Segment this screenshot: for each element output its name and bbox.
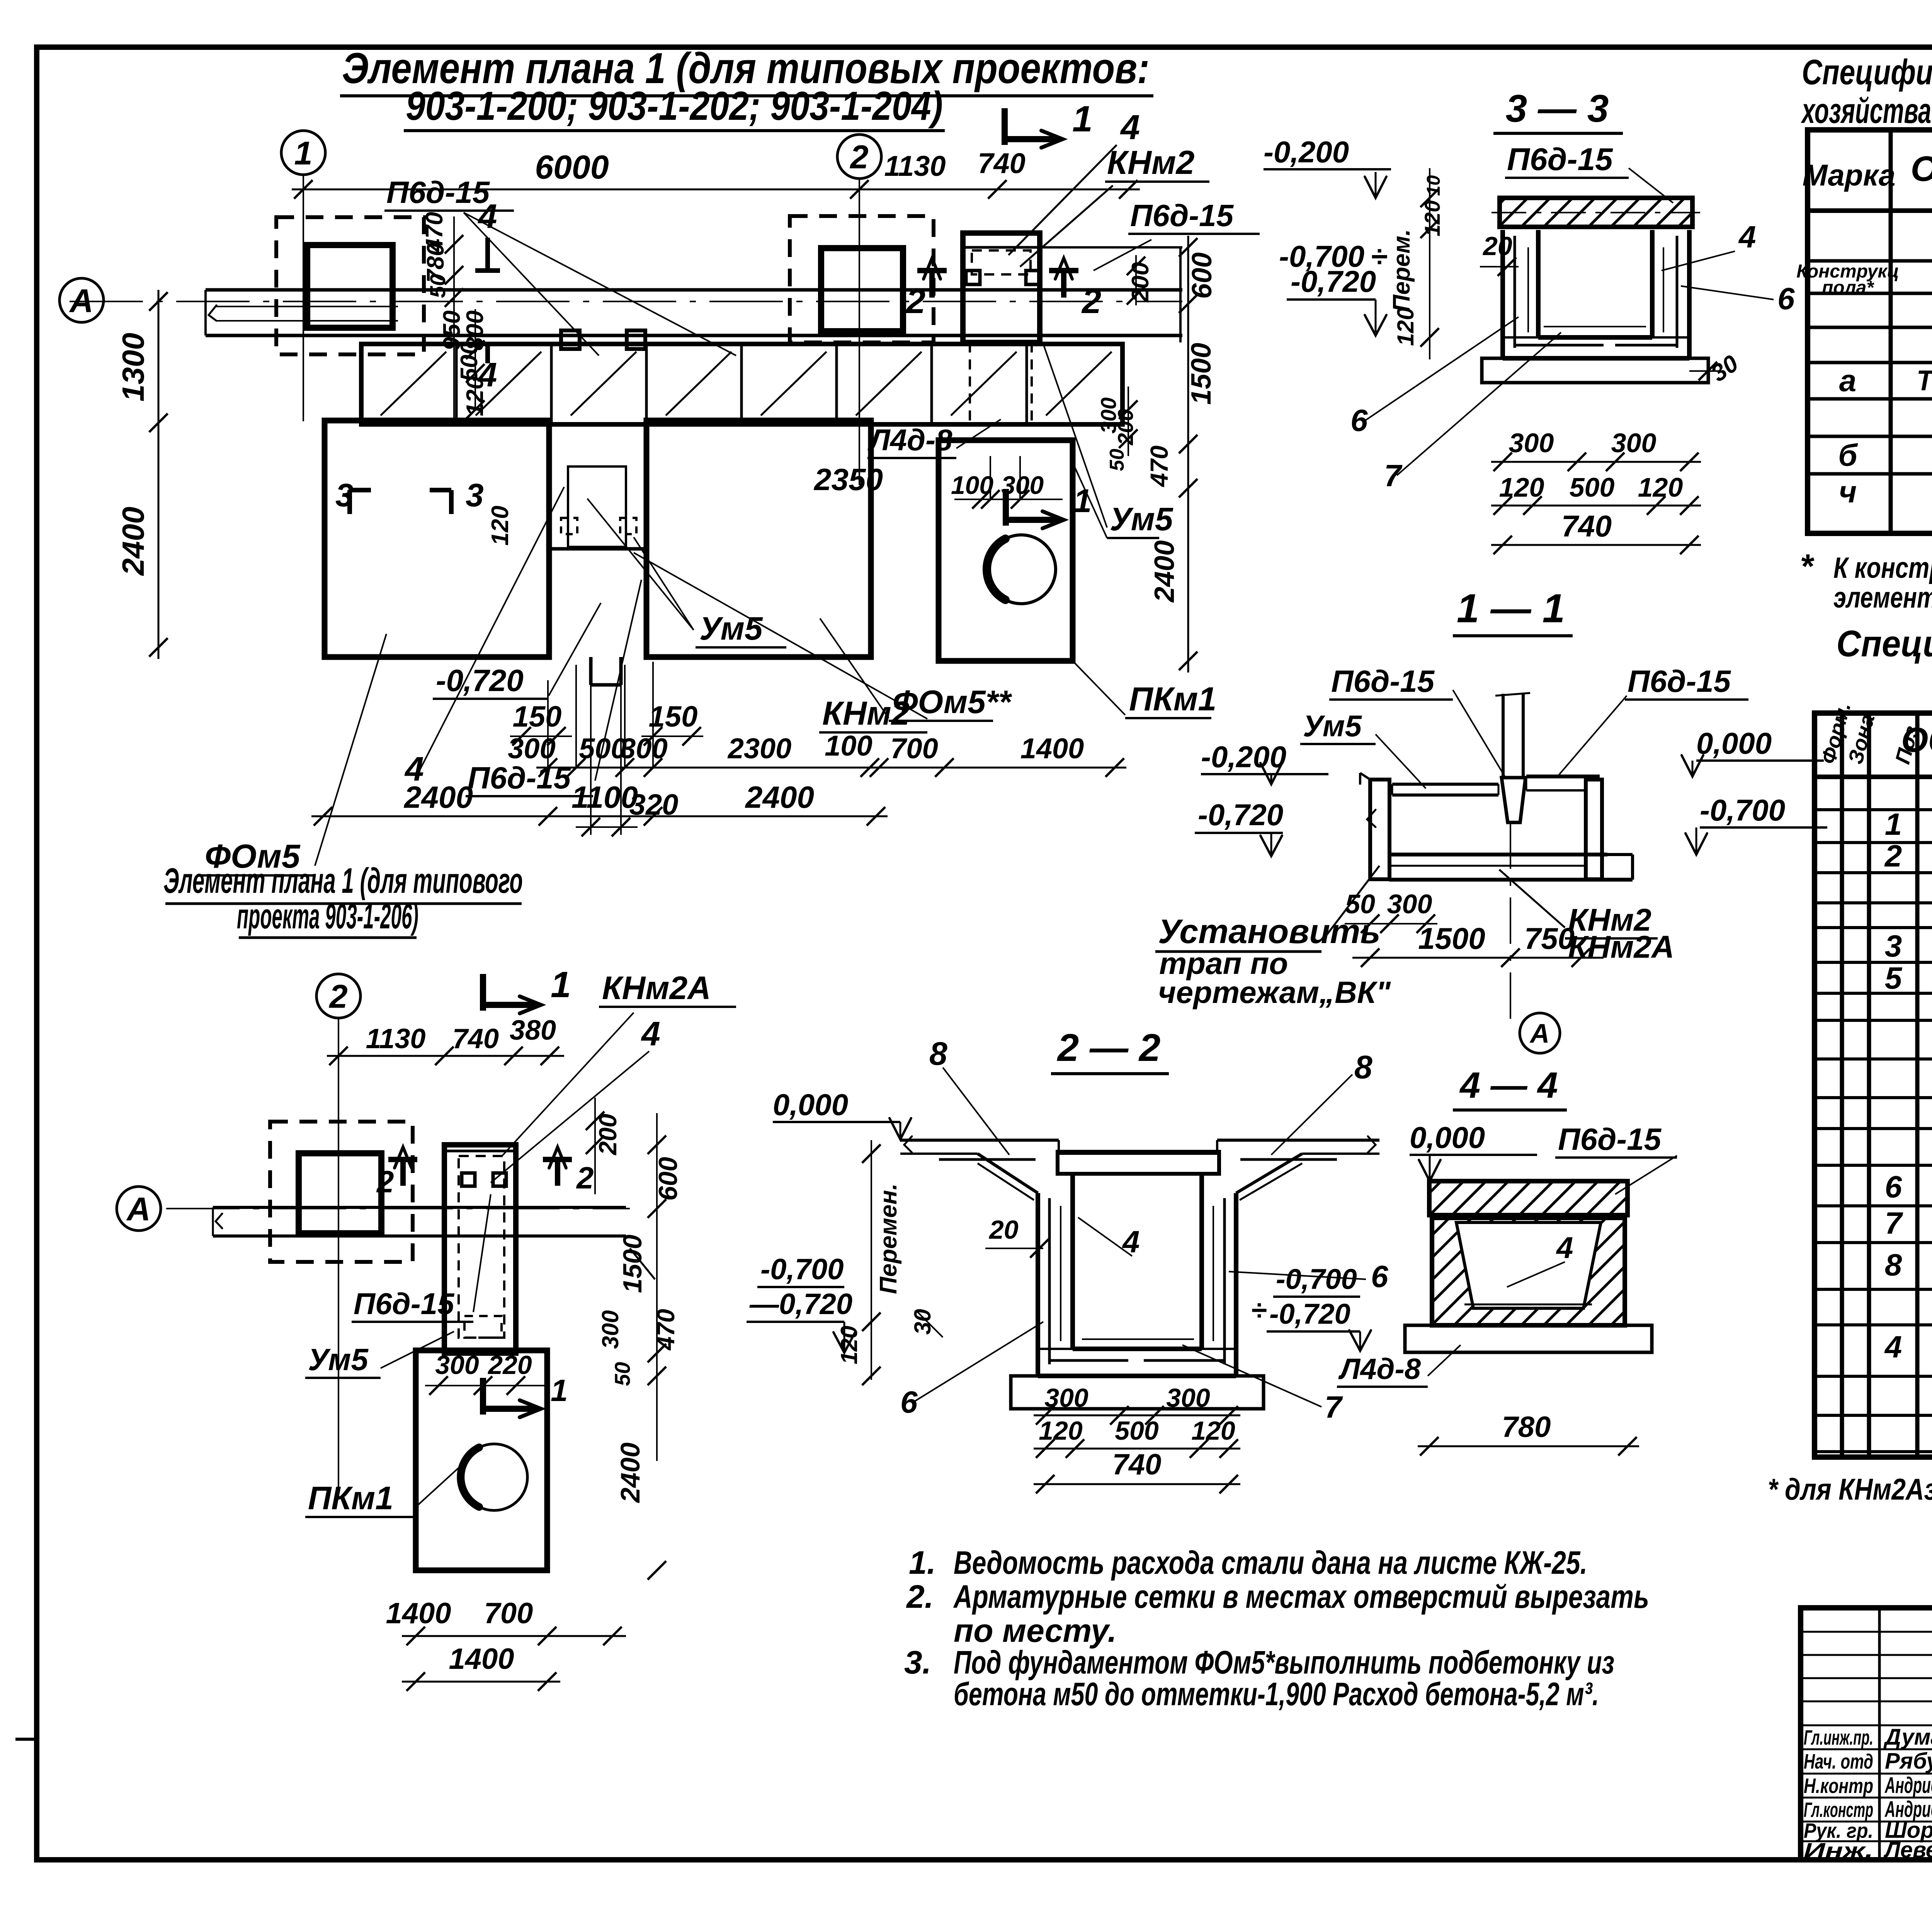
svg-text:-0,200: -0,200: [1264, 135, 1349, 169]
svg-text:Л4д-8: Л4д-8: [867, 423, 952, 457]
svg-text:Думан: Думан: [1883, 1725, 1932, 1750]
svg-text:20: 20: [988, 1215, 1019, 1245]
svg-text:500: 500: [1115, 1416, 1159, 1445]
svg-text:Под фундаментом ФОм5*выполнить: Под фундаментом ФОм5*выполнить подбетонк…: [954, 1644, 1614, 1680]
svg-text:Ум5: Ум5: [308, 1342, 369, 1377]
svg-text:3.: 3.: [904, 1644, 931, 1680]
svg-text:4: 4: [1738, 220, 1756, 254]
svg-text:бетона м50 до отметки-1,900 Р: бетона м50 до отметки-1,900 Расход бетон…: [954, 1676, 1599, 1712]
svg-text:300: 300: [1001, 471, 1044, 499]
svg-text:1: 1: [1073, 483, 1092, 519]
svg-text:700: 700: [890, 732, 938, 764]
svg-text:-0,200: -0,200: [1201, 740, 1286, 774]
svg-text:3 — 3: 3 — 3: [1506, 87, 1609, 130]
svg-text:8: 8: [929, 1035, 947, 1072]
svg-text:300: 300: [435, 1350, 479, 1380]
svg-text:Ум5: Ум5: [1110, 501, 1173, 537]
svg-text:740: 740: [1561, 509, 1612, 543]
svg-text:2: 2: [1081, 282, 1101, 321]
svg-text:по месту.: по месту.: [954, 1612, 1117, 1649]
svg-text:100: 100: [825, 730, 872, 762]
svg-text:50: 50: [1106, 449, 1128, 471]
svg-text:1300: 1300: [116, 333, 150, 402]
svg-text:120: 120: [1499, 472, 1544, 502]
svg-text:2300: 2300: [727, 732, 792, 764]
svg-text:А: А: [1529, 1018, 1550, 1049]
svg-text:КНм2А: КНм2А: [602, 970, 711, 1006]
svg-text:ч: ч: [1839, 475, 1857, 509]
svg-text:4: 4: [1556, 1231, 1573, 1265]
svg-text:2: 2: [905, 282, 925, 321]
svg-text:хозяйства на листах КЖ-15 (КЖ-: хозяйства на листах КЖ-15 (КЖ-16),КЖ-17,…: [1801, 91, 1932, 131]
svg-text:120: 120: [1191, 1416, 1235, 1445]
svg-text:2: 2: [849, 139, 868, 176]
svg-text:200: 200: [594, 1114, 622, 1156]
svg-text:-0,720: -0,720: [1269, 1298, 1350, 1330]
svg-text:6: 6: [1777, 281, 1795, 316]
svg-text:2400: 2400: [403, 780, 473, 814]
svg-text:470: 470: [1145, 446, 1173, 488]
svg-text:380: 380: [510, 1015, 556, 1046]
svg-text:П6д-15: П6д-15: [354, 1287, 455, 1321]
svg-text:0,000: 0,000: [773, 1088, 848, 1122]
svg-text:* для КНм2Азначения даны в зна: * для КНм2Азначения даны в знаменателе: [1768, 1472, 1932, 1506]
svg-text:740: 740: [978, 147, 1025, 179]
svg-text:1400: 1400: [1020, 732, 1084, 764]
svg-text:300: 300: [1387, 889, 1432, 919]
svg-text:1130: 1130: [366, 1023, 426, 1054]
svg-text:ФОм5: ФОм5: [205, 838, 301, 875]
svg-text:120: 120: [1039, 1416, 1083, 1445]
svg-text:-0,720: -0,720: [436, 663, 524, 698]
svg-text:Л4д-8: Л4д-8: [1338, 1353, 1421, 1386]
svg-text:Обозначение: Обозначение: [1911, 149, 1932, 189]
svg-text:П6д-15: П6д-15: [468, 761, 571, 795]
svg-text:1: 1: [1072, 99, 1093, 140]
svg-text:740: 740: [452, 1023, 499, 1054]
svg-text:Нач. отд: Нач. отд: [1804, 1750, 1873, 1773]
svg-text:0,000: 0,000: [1696, 726, 1772, 760]
svg-text:проекта 903-1-206): проекта 903-1-206): [237, 897, 418, 936]
svg-text:Марка: Марка: [1803, 158, 1896, 192]
svg-text:Левейка: Левейка: [1883, 1837, 1932, 1863]
svg-text:Инж.: Инж.: [1804, 1839, 1873, 1862]
svg-text:200: 200: [1127, 262, 1154, 302]
svg-text:Гл.инж.пр.: Гл.инж.пр.: [1804, 1726, 1873, 1749]
svg-text:1400: 1400: [449, 1643, 514, 1675]
svg-text:б: б: [1838, 438, 1858, 472]
svg-text:300: 300: [1166, 1383, 1210, 1413]
svg-text:-0,720: -0,720: [1198, 798, 1283, 832]
svg-text:—0,720: —0,720: [749, 1288, 852, 1321]
svg-text:пола*: пола*: [1822, 278, 1874, 298]
svg-text:300: 300: [597, 1310, 623, 1349]
svg-text:780: 780: [1502, 1411, 1551, 1444]
svg-text:-0,700: -0,700: [760, 1253, 844, 1286]
svg-text:500: 500: [579, 732, 626, 764]
svg-text:Обозначение: Обозначение: [1901, 721, 1932, 759]
svg-text:3: 3: [466, 477, 484, 513]
svg-text:5: 5: [1885, 961, 1903, 995]
svg-text:-0,700: -0,700: [1276, 1263, 1357, 1295]
svg-text:2: 2: [376, 1165, 394, 1199]
svg-text:элементы примыкания пола к кан: элементы примыкания пола к каналам, закл…: [1833, 581, 1932, 614]
svg-text:П6д-15: П6д-15: [1507, 142, 1613, 177]
svg-text:20: 20: [1482, 232, 1512, 261]
svg-text:Перемен.: Перемен.: [875, 1183, 902, 1294]
svg-text:6: 6: [900, 1385, 918, 1419]
svg-text:чертежам„ВК": чертежам„ВК": [1158, 975, 1391, 1010]
svg-text:10: 10: [1423, 175, 1444, 196]
svg-text:П6д-15: П6д-15: [1558, 1122, 1662, 1156]
svg-text:1 — 1: 1 — 1: [1457, 586, 1565, 631]
svg-text:П6д-15: П6д-15: [386, 175, 490, 209]
svg-text:Спецификация элементов к схеме: Спецификация элементов к схеме расположе…: [1802, 53, 1932, 92]
svg-text:2: 2: [576, 1161, 594, 1195]
svg-text:150: 150: [649, 700, 698, 733]
svg-text:1: 1: [1885, 807, 1902, 841]
svg-text:6000: 6000: [535, 149, 609, 186]
svg-text:7: 7: [1384, 458, 1403, 493]
svg-text:4 — 4: 4 — 4: [1459, 1065, 1558, 1106]
svg-text:ПКм1: ПКм1: [308, 1480, 393, 1516]
svg-text:300: 300: [1509, 428, 1554, 458]
svg-text:8: 8: [1885, 1248, 1902, 1282]
svg-text:Спецификация монолитной желе: Спецификация монолитной железобетонной: [1837, 623, 1932, 664]
svg-text:220: 220: [487, 1350, 532, 1380]
svg-text:2400: 2400: [116, 507, 150, 576]
svg-text:ФОм5**: ФОм5**: [893, 684, 1012, 720]
svg-text:1: 1: [294, 135, 312, 172]
svg-text:50: 50: [425, 274, 450, 298]
svg-text:2 — 2: 2 — 2: [1057, 1026, 1161, 1069]
svg-text:1500: 1500: [1418, 921, 1485, 955]
svg-text:2400: 2400: [615, 1442, 645, 1503]
svg-text:Арматурные сетки в местах отве: Арматурные сетки в местах отверстий выре…: [953, 1578, 1649, 1615]
svg-text:0,000: 0,000: [1410, 1120, 1485, 1154]
svg-text:Ведомость расхода стали дана н: Ведомость расхода стали дана на листе КЖ…: [954, 1544, 1587, 1581]
svg-text:4: 4: [1120, 108, 1140, 147]
svg-text:а: а: [1839, 363, 1857, 398]
svg-text:300: 300: [1611, 428, 1656, 458]
svg-text:1100: 1100: [571, 780, 638, 814]
svg-text:50: 50: [610, 1362, 634, 1386]
svg-text:Н.контр: Н.контр: [1804, 1774, 1873, 1798]
svg-text:2.: 2.: [906, 1578, 934, 1615]
svg-text:120: 120: [1420, 200, 1444, 236]
svg-text:1400: 1400: [386, 1597, 451, 1630]
svg-text:740: 740: [1112, 1448, 1162, 1481]
svg-text:2400: 2400: [745, 780, 814, 814]
svg-text:120: 120: [836, 1326, 862, 1364]
svg-text:ТУ6-16-051-249-79: ТУ6-16-051-249-79: [1917, 364, 1932, 397]
svg-text:КНм2: КНм2: [1107, 144, 1194, 181]
svg-text:А: А: [126, 1191, 150, 1228]
svg-text:ПКм1: ПКм1: [1129, 681, 1216, 718]
svg-text:6: 6: [1885, 1170, 1902, 1204]
svg-text:2400: 2400: [1149, 540, 1180, 603]
svg-text:-0,720: -0,720: [1291, 264, 1376, 298]
svg-text:120: 120: [1638, 472, 1683, 502]
svg-text:1: 1: [551, 964, 571, 1005]
svg-text:7: 7: [1325, 1390, 1343, 1424]
svg-text:1500: 1500: [1186, 343, 1217, 405]
svg-text:Перем.: Перем.: [1388, 229, 1415, 312]
svg-text:4: 4: [478, 197, 497, 235]
svg-text:*: *: [1800, 547, 1815, 585]
svg-text:7: 7: [1885, 1206, 1903, 1240]
svg-text:Ум5: Ум5: [699, 610, 763, 647]
svg-text:-0,700: -0,700: [1700, 793, 1785, 827]
svg-text:600: 600: [653, 1157, 683, 1201]
svg-text:÷: ÷: [1251, 1294, 1267, 1326]
svg-text:903-1-200; 903-1-202; 903-1-20: 903-1-200; 903-1-202; 903-1-204): [406, 83, 943, 129]
svg-text:2350: 2350: [813, 462, 883, 497]
svg-text:700: 700: [484, 1597, 533, 1630]
svg-text:600: 600: [1187, 252, 1218, 299]
svg-text:120: 120: [1393, 307, 1418, 346]
svg-text:Рябуха: Рябуха: [1885, 1748, 1932, 1774]
svg-text:Андриевская: Андриевская: [1884, 1773, 1932, 1798]
svg-text:6: 6: [1371, 1259, 1388, 1294]
svg-text:К конструкции пола условно отн: К конструкции пола условно относится арм…: [1833, 552, 1932, 584]
svg-text:4: 4: [1122, 1224, 1140, 1259]
svg-text:1: 1: [551, 1373, 568, 1408]
svg-text:500: 500: [1570, 472, 1615, 502]
svg-text:П6д-15: П6д-15: [1331, 664, 1435, 698]
svg-text:КНм2А: КНм2А: [1568, 930, 1674, 965]
svg-text:Гл.констр: Гл.констр: [1804, 1798, 1873, 1822]
svg-text:470: 470: [652, 1309, 680, 1351]
svg-text:4: 4: [641, 1015, 660, 1053]
svg-text:150: 150: [513, 700, 562, 733]
svg-text:2: 2: [328, 979, 347, 1015]
svg-text:П6д-15: П6д-15: [1628, 664, 1731, 698]
svg-text:П6д-15: П6д-15: [1130, 198, 1234, 233]
svg-text:50: 50: [1345, 889, 1375, 919]
svg-text:750: 750: [1524, 921, 1575, 955]
svg-text:4: 4: [1884, 1330, 1902, 1364]
svg-text:2: 2: [1884, 839, 1902, 873]
svg-text:30: 30: [910, 1309, 935, 1335]
svg-text:1130: 1130: [884, 150, 946, 182]
svg-text:3: 3: [1885, 929, 1902, 963]
svg-text:Ум5: Ум5: [1303, 709, 1362, 743]
svg-text:1.: 1.: [909, 1544, 936, 1581]
svg-text:8: 8: [1354, 1049, 1372, 1085]
svg-text:120: 120: [487, 506, 514, 545]
